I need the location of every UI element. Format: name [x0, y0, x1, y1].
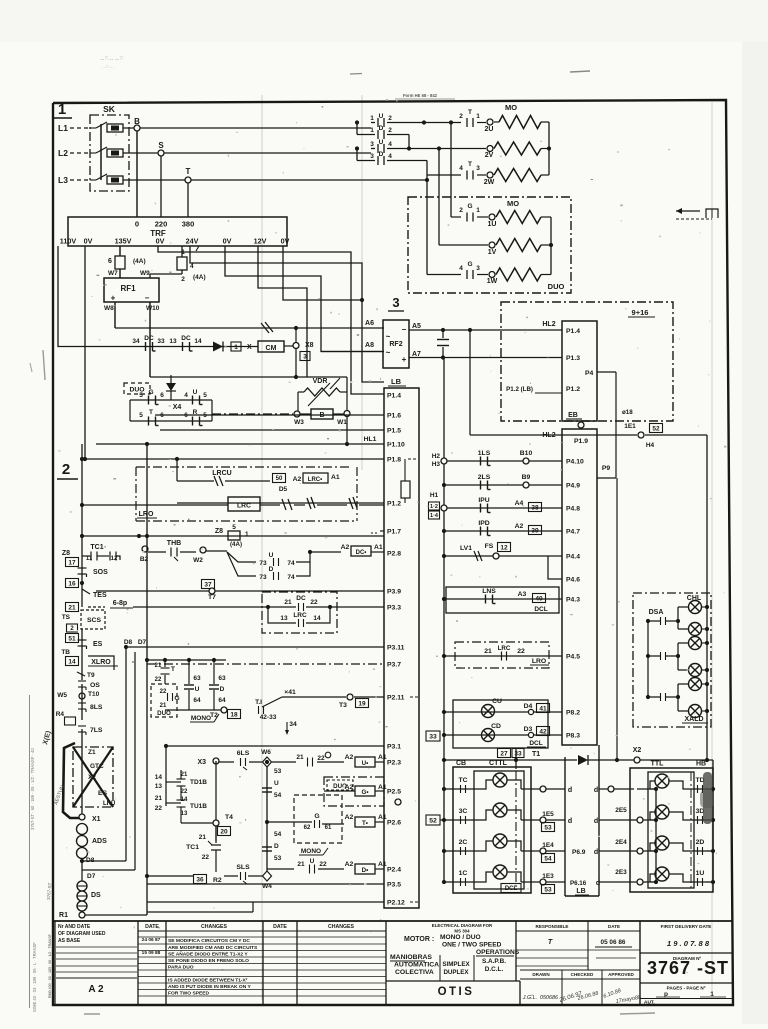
- svg-text:1·2: 1·2: [430, 504, 438, 510]
- svg-text:TD1B: TD1B: [190, 779, 207, 786]
- svg-text:3: 3: [370, 153, 374, 160]
- svg-text:X3: X3: [197, 759, 206, 766]
- svg-text:H4: H4: [646, 442, 655, 449]
- svg-text:RESPONSIBLE: RESPONSIBLE: [536, 924, 569, 929]
- svg-text:14: 14: [68, 658, 76, 665]
- svg-text:LV1: LV1: [460, 545, 472, 552]
- svg-text:LRO: LRO: [139, 511, 154, 518]
- svg-text:12: 12: [500, 544, 508, 551]
- svg-text:52: 52: [429, 817, 437, 824]
- svg-text:D7: D7: [87, 873, 96, 880]
- svg-text:53: 53: [274, 855, 282, 862]
- svg-text:W5: W5: [57, 692, 67, 699]
- svg-text:MO: MO: [505, 103, 517, 112]
- svg-text:AUTOMATICA: AUTOMATICA: [394, 962, 439, 969]
- svg-text:1: 1: [476, 207, 480, 214]
- svg-text:A2: A2: [293, 476, 302, 483]
- svg-text:TC1: TC1: [90, 544, 103, 551]
- svg-text:73: 73: [259, 560, 267, 567]
- svg-text:A1: A1: [378, 784, 387, 791]
- svg-text:13: 13: [181, 811, 188, 817]
- svg-text:22: 22: [155, 677, 162, 683]
- svg-text:IS ADDED DIODE BETWEEN T1-X²: IS ADDED DIODE BETWEEN T1-X²: [168, 978, 248, 984]
- svg-text:P3.3: P3.3: [387, 605, 401, 612]
- svg-text:P1.2: P1.2: [387, 501, 401, 508]
- svg-text:D8: D8: [124, 639, 133, 646]
- svg-text:38: 38: [531, 504, 539, 511]
- svg-text:THB: THB: [167, 540, 181, 547]
- svg-text:X: X: [247, 344, 252, 351]
- svg-text:MANIOBRAS: MANIOBRAS: [390, 954, 432, 961]
- svg-text:21: 21: [68, 604, 76, 611]
- svg-text:14: 14: [194, 338, 202, 345]
- svg-text:1: 1: [476, 113, 480, 120]
- svg-text:P4.3: P4.3: [566, 597, 580, 604]
- svg-text:G: G: [174, 695, 179, 702]
- svg-text:P8.3: P8.3: [566, 733, 580, 740]
- svg-text:P4.4: P4.4: [566, 554, 580, 561]
- svg-text:(4A): (4A): [230, 541, 242, 548]
- svg-text:T3: T3: [339, 702, 347, 709]
- svg-text:d: d: [594, 818, 598, 825]
- svg-text:P3.1: P3.1: [387, 744, 401, 751]
- svg-text:T•: T•: [362, 820, 368, 827]
- svg-text:05 06 86: 05 06 86: [601, 939, 626, 946]
- svg-text:6: 6: [160, 392, 164, 399]
- svg-text:TTL: TTL: [651, 761, 665, 768]
- svg-text:−: −: [145, 294, 150, 303]
- svg-text:(4A): (4A): [193, 274, 206, 281]
- svg-text:7LS: 7LS: [90, 727, 103, 734]
- svg-text:P3.5: P3.5: [387, 882, 401, 889]
- svg-text:22: 22: [181, 789, 188, 795]
- svg-text:CHANGES: CHANGES: [328, 924, 354, 930]
- svg-text:DATE: DATE: [273, 924, 287, 930]
- svg-text:SE AÑADE DIODO ENTRE T1-X2 Y: SE AÑADE DIODO ENTRE T1-X2 Y: [168, 951, 248, 958]
- svg-text:2V: 2V: [485, 152, 494, 159]
- svg-text:S: S: [158, 141, 164, 150]
- svg-text:L1: L1: [58, 123, 68, 133]
- svg-text:DCL: DCL: [534, 606, 547, 613]
- svg-text:2D: 2D: [696, 839, 705, 846]
- svg-text:14: 14: [155, 774, 163, 781]
- svg-text:050686: 050686: [540, 995, 558, 1001]
- svg-text:P1.2: P1.2: [566, 386, 580, 393]
- svg-text:11: 11: [86, 556, 93, 562]
- svg-text:ELECTRICAL DIAGRAM FOR: ELECTRICAL DIAGRAM FOR: [432, 923, 493, 928]
- svg-text:G: G: [148, 389, 153, 396]
- svg-text:34: 34: [289, 721, 297, 728]
- svg-text:RM3 400 · 03 · 189 · 06 · 1/2: RM3 400 · 03 · 189 · 06 · 1/2 · TRANSF: [48, 933, 52, 998]
- svg-text:․․⁙‥ ‥⁙: ․․⁙‥ ‥⁙: [100, 56, 124, 62]
- svg-text:AUT.: AUT.: [644, 1000, 655, 1006]
- svg-text:D: D: [274, 843, 279, 850]
- svg-text:13: 13: [169, 338, 177, 345]
- svg-text:HL1: HL1: [364, 436, 377, 443]
- svg-text:DUPLEX: DUPLEX: [443, 969, 469, 976]
- svg-text:A2: A2: [345, 754, 354, 761]
- svg-text:P4.5: P4.5: [566, 654, 580, 661]
- svg-text:8LS: 8LS: [90, 704, 103, 711]
- svg-text:D: D: [220, 686, 225, 693]
- svg-text:1E4: 1E4: [542, 842, 554, 849]
- svg-text:1LS: 1LS: [478, 450, 491, 457]
- svg-text:D7: D7: [138, 639, 147, 646]
- svg-text:54: 54: [544, 855, 552, 862]
- svg-text:LRC: LRC: [498, 645, 511, 652]
- svg-text:1: 1: [58, 101, 66, 118]
- svg-text:OF DIAGRAM USED: OF DIAGRAM USED: [58, 931, 106, 937]
- svg-text:22: 22: [155, 805, 163, 812]
- svg-text:2: 2: [388, 127, 392, 134]
- svg-text:5: 5: [232, 524, 236, 531]
- svg-text:62: 62: [304, 825, 311, 831]
- svg-text:21: 21: [199, 834, 207, 841]
- svg-text:A1: A1: [378, 814, 387, 821]
- svg-text:33: 33: [157, 338, 165, 345]
- svg-text:U: U: [195, 686, 200, 693]
- svg-text:CTTL: CTTL: [489, 760, 508, 767]
- svg-text:4: 4: [184, 392, 188, 399]
- svg-text:1E5: 1E5: [542, 811, 554, 818]
- svg-text:SIME 40 · 03 · 189 · 06 · L ·: SIME 40 · 03 · 189 · 06 · L · TRANSF: [32, 942, 37, 1012]
- svg-text:74: 74: [287, 574, 295, 581]
- svg-text:42-33: 42-33: [260, 714, 277, 721]
- svg-text:G•: G•: [362, 789, 369, 796]
- svg-text:2U: 2U: [485, 126, 494, 133]
- svg-text:×41: ×41: [284, 689, 296, 696]
- svg-text:(4A): (4A): [133, 258, 146, 265]
- svg-text:73: 73: [259, 574, 267, 581]
- svg-text:4: 4: [388, 141, 392, 148]
- svg-text:3C: 3C: [459, 808, 468, 815]
- svg-text:12: 12: [111, 556, 118, 562]
- svg-text:13: 13: [155, 783, 163, 790]
- svg-text:LRU: LRU: [103, 801, 115, 807]
- svg-text:5: 5: [139, 412, 143, 419]
- svg-text:22: 22: [517, 648, 525, 655]
- svg-text:19: 19: [358, 700, 366, 707]
- svg-text:D: D: [269, 566, 274, 573]
- svg-text:0V: 0V: [281, 237, 290, 246]
- svg-text:HB: HB: [696, 761, 706, 768]
- svg-text:1·4: 1·4: [430, 513, 439, 519]
- svg-text:U•: U•: [362, 760, 369, 767]
- svg-text:54: 54: [274, 831, 282, 838]
- svg-text:4: 4: [459, 165, 463, 172]
- svg-text:12V: 12V: [254, 237, 267, 246]
- svg-text:21: 21: [155, 795, 163, 802]
- svg-text:74: 74: [287, 560, 295, 567]
- svg-text:22: 22: [319, 861, 327, 868]
- svg-text:2: 2: [388, 115, 392, 122]
- svg-text:P1.6: P1.6: [387, 413, 401, 420]
- svg-text:TB: TB: [61, 649, 70, 656]
- svg-text:U: U: [379, 139, 384, 146]
- svg-text:4: 4: [190, 263, 194, 270]
- svg-text:ONE / TWO SPEED: ONE / TWO SPEED: [442, 942, 502, 949]
- svg-text:T.I: T.I: [255, 699, 262, 706]
- svg-text:P2.4: P2.4: [387, 867, 401, 874]
- svg-text:1 9 . 0 7. 8 8: 1 9 . 0 7. 8 8: [667, 939, 710, 948]
- svg-text:DATE: DATE: [608, 924, 620, 929]
- svg-text:37: 37: [204, 581, 212, 588]
- svg-text:21: 21: [284, 599, 292, 606]
- svg-text:1W: 1W: [487, 278, 498, 285]
- svg-text:W7: W7: [108, 270, 118, 277]
- svg-text:2C: 2C: [459, 839, 468, 846]
- svg-text:P8.2: P8.2: [566, 710, 580, 717]
- svg-text:2: 2: [459, 113, 463, 120]
- svg-text:d: d: [594, 787, 598, 794]
- svg-text:A 2: A 2: [88, 984, 104, 995]
- svg-text:T2: T2: [210, 712, 218, 719]
- svg-text:D5: D5: [279, 486, 288, 493]
- svg-text:22: 22: [317, 755, 325, 762]
- svg-text:APPROVED: APPROVED: [608, 972, 634, 977]
- svg-text:39: 39: [531, 527, 539, 534]
- svg-text:XLRO: XLRO: [91, 659, 111, 666]
- svg-text:XALD: XALD: [684, 716, 703, 723]
- svg-text:P1.2 (LB): P1.2 (LB): [506, 386, 533, 393]
- svg-text:220: 220: [155, 220, 168, 229]
- svg-text:1: 1: [234, 344, 238, 351]
- svg-text:P2.5: P2.5: [387, 789, 401, 796]
- svg-text:3: 3: [303, 353, 307, 360]
- svg-text:P6.16: P6.16: [570, 880, 587, 887]
- svg-text:Nr AND DATE: Nr AND DATE: [58, 924, 91, 930]
- svg-text:18: 18: [230, 711, 238, 718]
- svg-text:MOTOR :: MOTOR :: [404, 936, 434, 943]
- svg-text:ADS: ADS: [92, 838, 107, 845]
- svg-text:EB: EB: [568, 412, 578, 419]
- svg-text:P4.10: P4.10: [566, 459, 584, 466]
- svg-text:A2: A2: [341, 544, 350, 551]
- svg-text:DS: DS: [91, 892, 101, 899]
- svg-text:21: 21: [296, 754, 304, 761]
- svg-text:P2.11: P2.11: [387, 695, 405, 702]
- svg-text:2: 2: [62, 461, 70, 478]
- svg-text:21: 21: [297, 861, 305, 868]
- svg-text:CB: CB: [456, 760, 466, 767]
- svg-text:3: 3: [476, 165, 480, 172]
- svg-text:FOR TWO SPEED: FOR TWO SPEED: [168, 991, 209, 997]
- svg-text:50: 50: [276, 476, 283, 482]
- svg-text:AS BASE: AS BASE: [58, 938, 81, 944]
- svg-text:J.G.L.: J.G.L.: [522, 995, 537, 1001]
- svg-text:+: +: [402, 355, 407, 364]
- svg-text:W2: W2: [193, 557, 203, 564]
- svg-text:FIRST DELIVERY DATE: FIRST DELIVERY DATE: [661, 924, 712, 929]
- svg-text:TES: TES: [93, 592, 107, 599]
- svg-text:22: 22: [160, 689, 167, 695]
- svg-text:T9: T9: [87, 672, 95, 679]
- svg-text:TC1: TC1: [186, 844, 199, 851]
- svg-text:LB: LB: [576, 888, 585, 895]
- svg-text:SK: SK: [103, 104, 116, 114]
- svg-text:24 06 87: 24 06 87: [142, 937, 161, 943]
- svg-text:6-8p: 6-8p: [113, 600, 127, 607]
- svg-text:61: 61: [325, 825, 332, 831]
- svg-text:17: 17: [68, 559, 76, 566]
- svg-text:P4: P4: [585, 370, 594, 377]
- svg-text:ø18: ø18: [622, 409, 633, 416]
- svg-text:0V: 0V: [84, 237, 93, 246]
- svg-text:L2: L2: [58, 148, 68, 158]
- svg-text:VDR: VDR: [313, 378, 328, 385]
- svg-text:SIMPLEX: SIMPLEX: [442, 961, 470, 968]
- svg-text:A1: A1: [331, 474, 340, 481]
- svg-text:9+16: 9+16: [632, 308, 649, 317]
- svg-text:U: U: [310, 858, 315, 865]
- svg-text:R1: R1: [59, 912, 68, 919]
- svg-text:53: 53: [544, 824, 552, 831]
- svg-text:CU: CU: [492, 698, 502, 705]
- svg-text:H1: H1: [430, 492, 439, 499]
- svg-text:P3.11: P3.11: [387, 645, 405, 652]
- svg-text:‥⁙‥․: ‥⁙‥․: [102, 64, 115, 70]
- svg-text:DATE: DATE: [145, 924, 159, 930]
- svg-text:4: 4: [459, 265, 463, 272]
- svg-text:T4: T4: [225, 814, 233, 821]
- svg-text:36: 36: [196, 876, 204, 883]
- svg-text:3: 3: [370, 141, 374, 148]
- svg-text:16: 16: [68, 580, 76, 587]
- svg-text:P4.6: P4.6: [566, 577, 580, 584]
- svg-text:1U: 1U: [488, 221, 497, 228]
- svg-text:52: 52: [652, 425, 660, 432]
- svg-text:14: 14: [313, 615, 321, 622]
- svg-text:P3.7: P3.7: [387, 662, 401, 669]
- svg-text:T: T: [468, 161, 472, 168]
- svg-text:DC: DC: [296, 595, 306, 602]
- svg-text:6: 6: [108, 258, 112, 265]
- svg-text:P3.9: P3.9: [387, 589, 401, 596]
- svg-text:~: ~: [386, 348, 391, 357]
- svg-text:U: U: [379, 113, 384, 120]
- svg-text:T: T: [186, 167, 191, 176]
- svg-text:20: 20: [220, 828, 228, 835]
- svg-text:P1.9: P1.9: [574, 438, 588, 445]
- svg-text:B10: B10: [520, 450, 533, 457]
- svg-text:3: 3: [392, 295, 399, 310]
- svg-text:MONO: MONO: [191, 715, 211, 722]
- svg-text:SOS: SOS: [93, 569, 108, 576]
- svg-text:64: 64: [218, 697, 226, 704]
- svg-text:D: D: [379, 125, 384, 132]
- svg-text:LRC: LRC: [237, 503, 251, 510]
- svg-text:LNS: LNS: [482, 588, 496, 595]
- svg-text:COLECTIVA: COLECTIVA: [395, 969, 434, 976]
- svg-text:MONO / DUO: MONO / DUO: [440, 934, 481, 941]
- svg-text:DC: DC: [181, 335, 191, 342]
- svg-text:0V: 0V: [156, 237, 165, 246]
- svg-text:OS: OS: [90, 682, 100, 689]
- svg-text:P4.8: P4.8: [566, 506, 580, 513]
- svg-text:P4.7: P4.7: [566, 529, 580, 536]
- svg-text:135V: 135V: [115, 237, 132, 246]
- svg-text:U: U: [274, 780, 279, 787]
- svg-text:B9: B9: [522, 474, 531, 481]
- svg-text:1U: 1U: [696, 870, 705, 877]
- svg-text:W8: W8: [104, 305, 114, 312]
- svg-text:W9: W9: [140, 270, 150, 277]
- svg-text:A6: A6: [365, 320, 374, 327]
- svg-text:A3: A3: [518, 591, 527, 598]
- svg-text:D: D: [379, 151, 384, 158]
- svg-text:P1.4: P1.4: [566, 328, 580, 335]
- svg-text:ARE MODIFIED CM AND DC CIRCUIT: ARE MODIFIED CM AND DC CIRCUITS: [168, 945, 258, 951]
- svg-text:X2: X2: [633, 747, 642, 754]
- svg-text:X8: X8: [305, 342, 314, 349]
- svg-text:ES: ES: [98, 790, 108, 797]
- svg-text:L3: L3: [58, 175, 68, 185]
- svg-text:1: 1: [245, 531, 249, 538]
- svg-text:2E5: 2E5: [615, 807, 627, 814]
- svg-text:d: d: [568, 818, 572, 825]
- svg-text:ES: ES: [93, 641, 103, 648]
- svg-text:T: T: [149, 409, 153, 416]
- svg-text:P2.8: P2.8: [387, 551, 401, 558]
- svg-text:2: 2: [181, 276, 185, 283]
- svg-text:0V: 0V: [223, 237, 232, 246]
- svg-text:CHECKED: CHECKED: [571, 972, 594, 977]
- svg-text:42: 42: [539, 728, 547, 735]
- svg-text:FS: FS: [485, 543, 494, 550]
- svg-text:53: 53: [274, 768, 282, 775]
- svg-text:d: d: [594, 849, 598, 856]
- svg-text:RF1: RF1: [120, 284, 136, 293]
- svg-text:380: 380: [182, 220, 195, 229]
- svg-text:A1: A1: [378, 754, 387, 761]
- svg-text:21: 21: [484, 648, 492, 655]
- svg-text:24V: 24V: [186, 237, 199, 246]
- svg-text:SLS: SLS: [236, 864, 250, 871]
- svg-text:1V: 1V: [488, 249, 497, 256]
- svg-text:R2: R2: [213, 877, 222, 884]
- svg-text:P1.3: P1.3: [566, 355, 580, 362]
- svg-text:2E3: 2E3: [615, 869, 627, 876]
- svg-text:H2: H2: [432, 453, 441, 460]
- svg-text:LRC: LRC: [293, 612, 307, 619]
- svg-text:OTIS: OTIS: [438, 986, 475, 998]
- svg-text:2LS: 2LS: [478, 474, 491, 481]
- svg-text:TU1B: TU1B: [190, 803, 207, 810]
- svg-text:W6: W6: [261, 749, 271, 756]
- svg-text:W3: W3: [294, 419, 304, 426]
- svg-text:A2: A2: [345, 814, 354, 821]
- svg-text:Z1: Z1: [88, 749, 96, 756]
- svg-text:1: 1: [370, 127, 374, 134]
- svg-text:40: 40: [535, 595, 543, 602]
- svg-text:SCS: SCS: [87, 617, 101, 624]
- svg-text:RF2: RF2: [389, 341, 402, 348]
- svg-text:d: d: [568, 787, 572, 794]
- svg-text:CHANGES: CHANGES: [201, 924, 227, 930]
- svg-text:R4: R4: [56, 711, 65, 718]
- svg-text:Z8: Z8: [62, 550, 70, 557]
- svg-text:CM: CM: [266, 345, 277, 352]
- svg-text:MS 304: MS 304: [454, 929, 470, 934]
- svg-text:SE MODIFICA CIRCUITOS CM Y DC: SE MODIFICA CIRCUITOS CM Y DC: [168, 938, 250, 944]
- svg-text:51: 51: [68, 635, 76, 642]
- svg-text:A1: A1: [378, 861, 387, 868]
- svg-text:X2: X2: [88, 774, 96, 781]
- svg-text:DUO: DUO: [157, 710, 171, 717]
- svg-text:33: 33: [514, 750, 522, 757]
- svg-text:63: 63: [218, 675, 226, 682]
- svg-text:−: −: [402, 325, 407, 334]
